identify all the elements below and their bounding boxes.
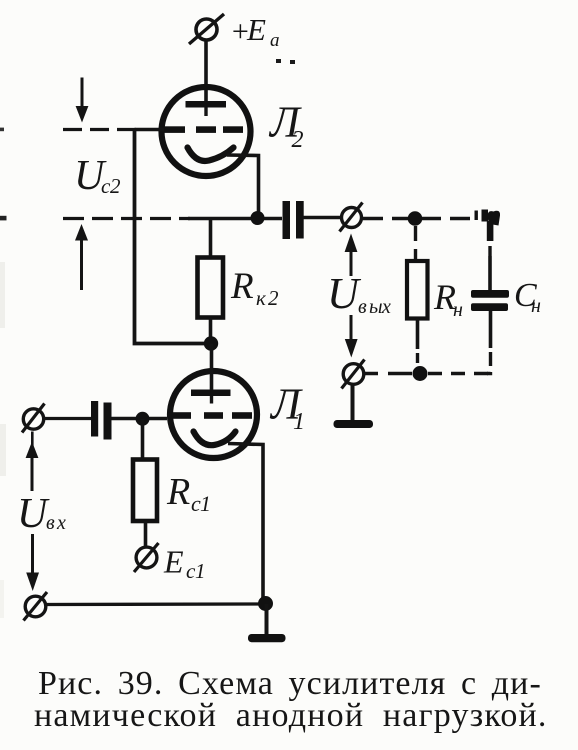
- speck marks: [276, 59, 295, 64]
- wire Rk2 top lead: [209, 219, 213, 259]
- svg-text:1: 1: [195, 559, 206, 583]
- grid lead wire L2: [135, 128, 165, 132]
- svg-text:1: 1: [200, 491, 211, 516]
- output line wire: [188, 217, 282, 221]
- label L2: [268, 98, 304, 154]
- arrow down (Uc2 top): [76, 78, 89, 123]
- svg-text:a: a: [270, 30, 280, 51]
- label Ec1: [163, 544, 206, 584]
- label Uvx: [17, 491, 66, 537]
- wire grid L2 down to node: [135, 128, 210, 344]
- edge mark lower: [0, 216, 7, 221]
- svg-text:н: н: [453, 299, 463, 321]
- label Rn: [433, 277, 463, 321]
- svg-text:U: U: [327, 269, 362, 318]
- resistor Rk2: [198, 258, 224, 318]
- terminal output bottom: [342, 360, 365, 389]
- label Uc2: [74, 153, 121, 199]
- svg-text:2: 2: [268, 286, 279, 310]
- corner blob top right: [475, 210, 501, 242]
- junction node cathode bottom: [258, 596, 273, 611]
- tube L1 grid: [168, 412, 252, 419]
- ground symbol (cathode): [248, 604, 286, 642]
- svg-text:к: к: [256, 286, 266, 310]
- label Rc1: [166, 471, 211, 516]
- tube L2 anode: [186, 101, 227, 116]
- svg-text:R: R: [230, 266, 254, 307]
- label Rk2: [230, 266, 279, 310]
- label +Ea: [230, 12, 280, 51]
- svg-text:н: н: [531, 295, 541, 317]
- label L1: [269, 380, 305, 436]
- wire cap to grid L1: [112, 417, 168, 421]
- terminal input bottom: [24, 592, 48, 621]
- terminal input top: [22, 404, 45, 433]
- junction node grid L1: [136, 412, 150, 426]
- svg-text:E: E: [163, 544, 184, 580]
- tube L1 cathode: [194, 432, 236, 446]
- junction node load bottom: [413, 366, 428, 381]
- caption line 1: [38, 665, 542, 703]
- wire Rk2 bottom lead: [209, 318, 213, 344]
- svg-text:х: х: [381, 296, 391, 318]
- wire node to anode L1: [210, 344, 214, 391]
- bottom wire: [46, 602, 266, 606]
- arrow down (Uvyh bottom): [345, 315, 358, 358]
- svg-text:ы: ы: [369, 296, 383, 318]
- dashed measure line upper (grid L2 level): [63, 128, 136, 131]
- svg-text:в: в: [358, 296, 367, 318]
- svg-text:1: 1: [293, 409, 305, 435]
- dashed measure line lower (output level left): [63, 217, 190, 220]
- label Cn: [514, 277, 541, 317]
- svg-text:2: 2: [292, 127, 304, 153]
- arrow up (Uc2 bottom): [75, 224, 88, 290]
- svg-text:E: E: [246, 12, 266, 47]
- capacitor Cn: [471, 290, 509, 311]
- dashed vertical to Rn: [414, 226, 417, 261]
- svg-text:R: R: [166, 471, 190, 513]
- arrow up (Uvyh top): [345, 234, 358, 277]
- junction node cathode L2 / output: [251, 211, 265, 225]
- wire Rc1 to Ec1 terminal: [144, 521, 148, 548]
- junction node load top: [408, 211, 423, 226]
- label Uvyh: [327, 269, 391, 318]
- tube L2 grid: [163, 126, 243, 133]
- tube L1 envelope: [170, 371, 257, 458]
- terminal Ec1: [134, 543, 159, 572]
- arrow down (Uvx bottom): [26, 534, 39, 591]
- svg-text:х: х: [56, 512, 66, 534]
- input coupling capacitor: [91, 401, 112, 440]
- tube L2 envelope: [162, 87, 251, 176]
- tube L2 cathode lead wire: [227, 155, 259, 214]
- caption line 2: [34, 697, 548, 735]
- wire Cn bottom: [487, 311, 491, 374]
- wire cap to output terminal: [303, 216, 341, 219]
- ground symbol (output): [334, 385, 374, 429]
- tube L1 anode: [191, 390, 231, 404]
- wire anode supply to tube L2: [204, 42, 208, 102]
- svg-text:в: в: [46, 512, 55, 534]
- left edge artifacts: [0, 262, 6, 618]
- dashed wire output terminal to load node: [363, 217, 472, 220]
- wire input terminal to cap: [44, 417, 92, 420]
- wire grid node down to Rc1: [141, 419, 145, 460]
- tube L1 cathode lead wire: [228, 444, 263, 601]
- resistor Rc1: [133, 460, 157, 522]
- resistor Rn: [407, 261, 428, 319]
- terminal output top: [340, 203, 363, 232]
- arrow up (Uvx top): [26, 432, 39, 492]
- svg-text:2: 2: [110, 174, 121, 198]
- edge mark upper: [0, 128, 4, 132]
- coupling capacitor C (output): [283, 201, 304, 239]
- dashed wire bottom load: [364, 372, 488, 375]
- wire Rn bottom: [416, 319, 420, 364]
- junction node anode L1: [204, 336, 218, 350]
- tube L2 cathode: [188, 148, 234, 161]
- dashed wire right side down to Cn: [488, 246, 491, 291]
- terminal +Ea: [189, 14, 224, 44]
